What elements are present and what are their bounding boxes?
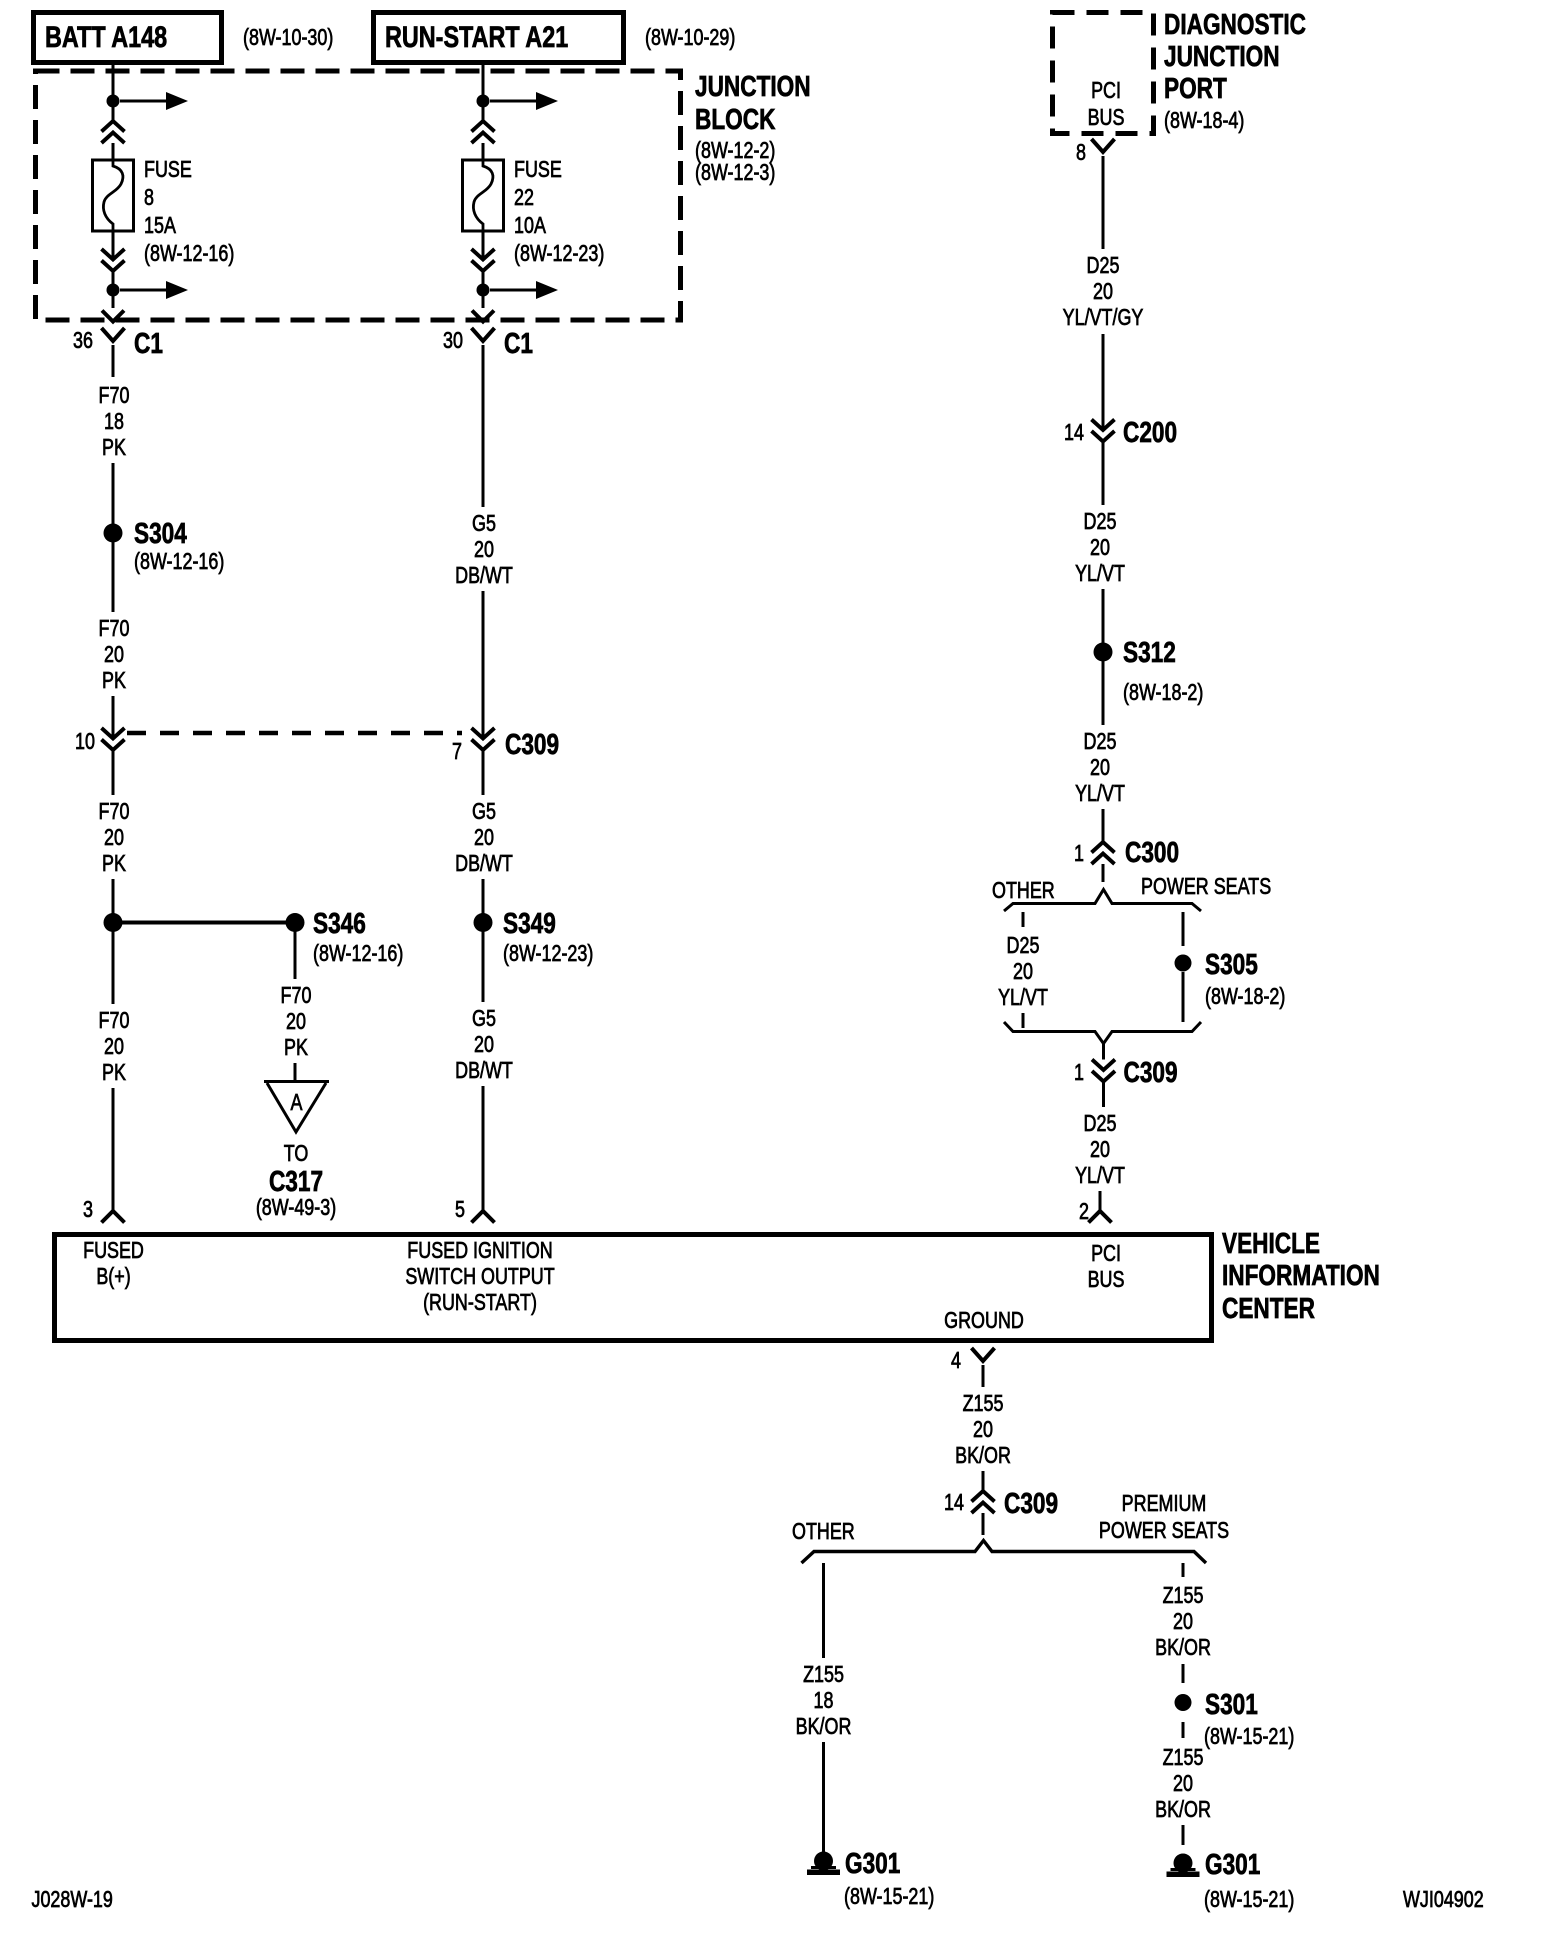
- svg-text:14: 14: [944, 1490, 964, 1516]
- svg-text:Z155: Z155: [963, 1391, 1004, 1417]
- svg-text:(8W-18-4): (8W-18-4): [1164, 108, 1244, 134]
- svg-text:3: 3: [83, 1197, 93, 1223]
- svg-text:20: 20: [1093, 279, 1113, 305]
- svg-text:CENTER: CENTER: [1222, 1291, 1315, 1324]
- svg-text:D25: D25: [1007, 933, 1040, 959]
- svg-text:(8W-15-21): (8W-15-21): [844, 1884, 934, 1910]
- svg-text:15A: 15A: [144, 213, 176, 239]
- svg-text:(8W-18-2): (8W-18-2): [1205, 984, 1285, 1010]
- svg-text:C200: C200: [1123, 415, 1177, 448]
- svg-text:BUS: BUS: [1088, 1267, 1125, 1293]
- svg-text:PREMIUM: PREMIUM: [1122, 1491, 1207, 1517]
- svg-text:18: 18: [104, 409, 124, 435]
- svg-text:PK: PK: [102, 435, 126, 461]
- svg-text:20: 20: [1173, 1771, 1193, 1797]
- svg-text:YL/VT: YL/VT: [1075, 781, 1125, 807]
- svg-text:Z155: Z155: [1163, 1745, 1204, 1771]
- svg-text:DB/WT: DB/WT: [455, 563, 513, 589]
- svg-text:F70: F70: [99, 616, 130, 642]
- svg-text:POWER SEATS: POWER SEATS: [1099, 1518, 1229, 1544]
- svg-text:B(+): B(+): [96, 1264, 130, 1290]
- svg-text:20: 20: [1090, 535, 1110, 561]
- svg-text:PK: PK: [284, 1035, 308, 1061]
- svg-text:J028W-19: J028W-19: [32, 1887, 113, 1913]
- svg-text:S305: S305: [1205, 947, 1258, 980]
- svg-text:YL/VT: YL/VT: [1075, 561, 1125, 587]
- svg-text:DB/WT: DB/WT: [455, 1058, 513, 1084]
- svg-text:20: 20: [104, 642, 124, 668]
- svg-text:G301: G301: [1205, 1847, 1260, 1880]
- svg-text:(8W-12-16): (8W-12-16): [134, 549, 224, 575]
- svg-text:20: 20: [104, 1034, 124, 1060]
- svg-text:(8W-12-23): (8W-12-23): [514, 241, 604, 267]
- svg-text:10A: 10A: [514, 213, 546, 239]
- svg-text:8: 8: [1076, 140, 1086, 166]
- svg-text:BATT A148: BATT A148: [45, 20, 167, 53]
- svg-text:FUSE: FUSE: [144, 157, 192, 183]
- svg-text:RUN-START A21: RUN-START A21: [385, 20, 568, 53]
- svg-text:PORT: PORT: [1164, 71, 1227, 104]
- svg-text:S312: S312: [1123, 635, 1176, 668]
- svg-text:FUSED: FUSED: [83, 1238, 144, 1264]
- svg-text:C317: C317: [269, 1164, 323, 1197]
- svg-text:C309: C309: [1124, 1055, 1178, 1088]
- svg-text:D25: D25: [1084, 509, 1117, 535]
- svg-text:G301: G301: [845, 1846, 900, 1879]
- svg-text:A: A: [291, 1090, 303, 1116]
- svg-text:BK/OR: BK/OR: [796, 1714, 852, 1740]
- svg-text:20: 20: [1090, 1137, 1110, 1163]
- svg-text:D25: D25: [1084, 1111, 1117, 1137]
- svg-text:DB/WT: DB/WT: [455, 851, 513, 877]
- svg-text:JUNCTION: JUNCTION: [1164, 39, 1280, 72]
- svg-text:G5: G5: [472, 799, 496, 825]
- svg-text:20: 20: [474, 825, 494, 851]
- svg-text:C309: C309: [1004, 1486, 1058, 1519]
- svg-text:OTHER: OTHER: [792, 1519, 855, 1545]
- svg-text:PK: PK: [102, 668, 126, 694]
- svg-text:2: 2: [1079, 1199, 1089, 1225]
- svg-text:BK/OR: BK/OR: [1155, 1635, 1211, 1661]
- svg-text:YL/VT: YL/VT: [1075, 1163, 1125, 1189]
- svg-text:20: 20: [286, 1009, 306, 1035]
- svg-text:SWITCH OUTPUT: SWITCH OUTPUT: [405, 1264, 555, 1290]
- svg-text:C309: C309: [505, 727, 559, 760]
- svg-text:4: 4: [951, 1348, 961, 1374]
- svg-text:20: 20: [1013, 959, 1033, 985]
- svg-text:INFORMATION: INFORMATION: [1222, 1258, 1380, 1291]
- svg-text:BK/OR: BK/OR: [1155, 1797, 1211, 1823]
- svg-text:F70: F70: [281, 983, 312, 1009]
- svg-text:(8W-18-2): (8W-18-2): [1123, 680, 1203, 706]
- svg-text:PK: PK: [102, 851, 126, 877]
- svg-text:VEHICLE: VEHICLE: [1222, 1226, 1320, 1259]
- svg-text:5: 5: [455, 1197, 465, 1223]
- svg-text:1: 1: [1074, 841, 1084, 867]
- svg-text:20: 20: [474, 1032, 494, 1058]
- svg-text:YL/VT/GY: YL/VT/GY: [1063, 305, 1144, 331]
- svg-text:FUSE: FUSE: [514, 157, 562, 183]
- svg-text:14: 14: [1064, 420, 1084, 446]
- svg-text:S346: S346: [313, 906, 366, 939]
- svg-text:C1: C1: [504, 326, 533, 359]
- svg-text:PK: PK: [102, 1060, 126, 1086]
- svg-text:PCI: PCI: [1091, 1241, 1121, 1267]
- svg-text:F70: F70: [99, 799, 130, 825]
- svg-text:(8W-10-29): (8W-10-29): [645, 25, 735, 51]
- svg-text:(8W-10-30): (8W-10-30): [243, 25, 333, 51]
- svg-text:WJI04902: WJI04902: [1403, 1887, 1484, 1913]
- svg-text:(8W-12-16): (8W-12-16): [144, 241, 234, 267]
- svg-text:POWER SEATS: POWER SEATS: [1141, 874, 1271, 900]
- svg-text:22: 22: [514, 185, 534, 211]
- svg-text:S301: S301: [1205, 1687, 1258, 1720]
- svg-text:Z155: Z155: [1163, 1583, 1204, 1609]
- svg-text:(8W-12-3): (8W-12-3): [695, 160, 775, 186]
- svg-text:TO: TO: [284, 1141, 309, 1167]
- svg-text:GROUND: GROUND: [944, 1308, 1024, 1334]
- svg-text:8: 8: [144, 185, 154, 211]
- svg-text:D25: D25: [1087, 253, 1120, 279]
- svg-text:36: 36: [73, 328, 93, 354]
- svg-text:10: 10: [75, 729, 95, 755]
- svg-text:C300: C300: [1125, 835, 1179, 868]
- svg-text:30: 30: [443, 328, 463, 354]
- svg-text:20: 20: [1090, 755, 1110, 781]
- svg-text:F70: F70: [99, 383, 130, 409]
- svg-text:(8W-12-23): (8W-12-23): [503, 941, 593, 967]
- svg-text:BK/OR: BK/OR: [955, 1443, 1011, 1469]
- svg-text:(RUN-START): (RUN-START): [423, 1290, 537, 1316]
- svg-text:PCI: PCI: [1091, 78, 1121, 104]
- svg-text:S349: S349: [503, 906, 556, 939]
- svg-text:JUNCTION: JUNCTION: [695, 69, 811, 102]
- svg-text:G5: G5: [472, 511, 496, 537]
- svg-text:(8W-15-21): (8W-15-21): [1204, 1724, 1294, 1750]
- svg-text:(8W-12-16): (8W-12-16): [313, 941, 403, 967]
- svg-text:FUSED IGNITION: FUSED IGNITION: [407, 1238, 552, 1264]
- svg-text:C1: C1: [134, 326, 163, 359]
- svg-text:BLOCK: BLOCK: [695, 102, 776, 135]
- svg-text:F70: F70: [99, 1008, 130, 1034]
- svg-text:7: 7: [452, 739, 462, 765]
- svg-text:OTHER: OTHER: [992, 878, 1055, 904]
- svg-text:(8W-15-21): (8W-15-21): [1204, 1887, 1294, 1913]
- svg-text:Z155: Z155: [803, 1662, 844, 1688]
- svg-text:1: 1: [1074, 1060, 1084, 1086]
- svg-text:20: 20: [104, 825, 124, 851]
- svg-text:BUS: BUS: [1088, 105, 1125, 131]
- svg-text:20: 20: [973, 1417, 993, 1443]
- svg-text:G5: G5: [472, 1006, 496, 1032]
- svg-text:D25: D25: [1084, 729, 1117, 755]
- svg-text:18: 18: [814, 1688, 834, 1714]
- svg-text:20: 20: [1173, 1609, 1193, 1635]
- svg-text:S304: S304: [134, 516, 187, 549]
- svg-text:YL/VT: YL/VT: [998, 985, 1048, 1011]
- svg-text:(8W-49-3): (8W-49-3): [256, 1195, 336, 1221]
- svg-text:20: 20: [474, 537, 494, 563]
- svg-text:DIAGNOSTIC: DIAGNOSTIC: [1164, 7, 1306, 40]
